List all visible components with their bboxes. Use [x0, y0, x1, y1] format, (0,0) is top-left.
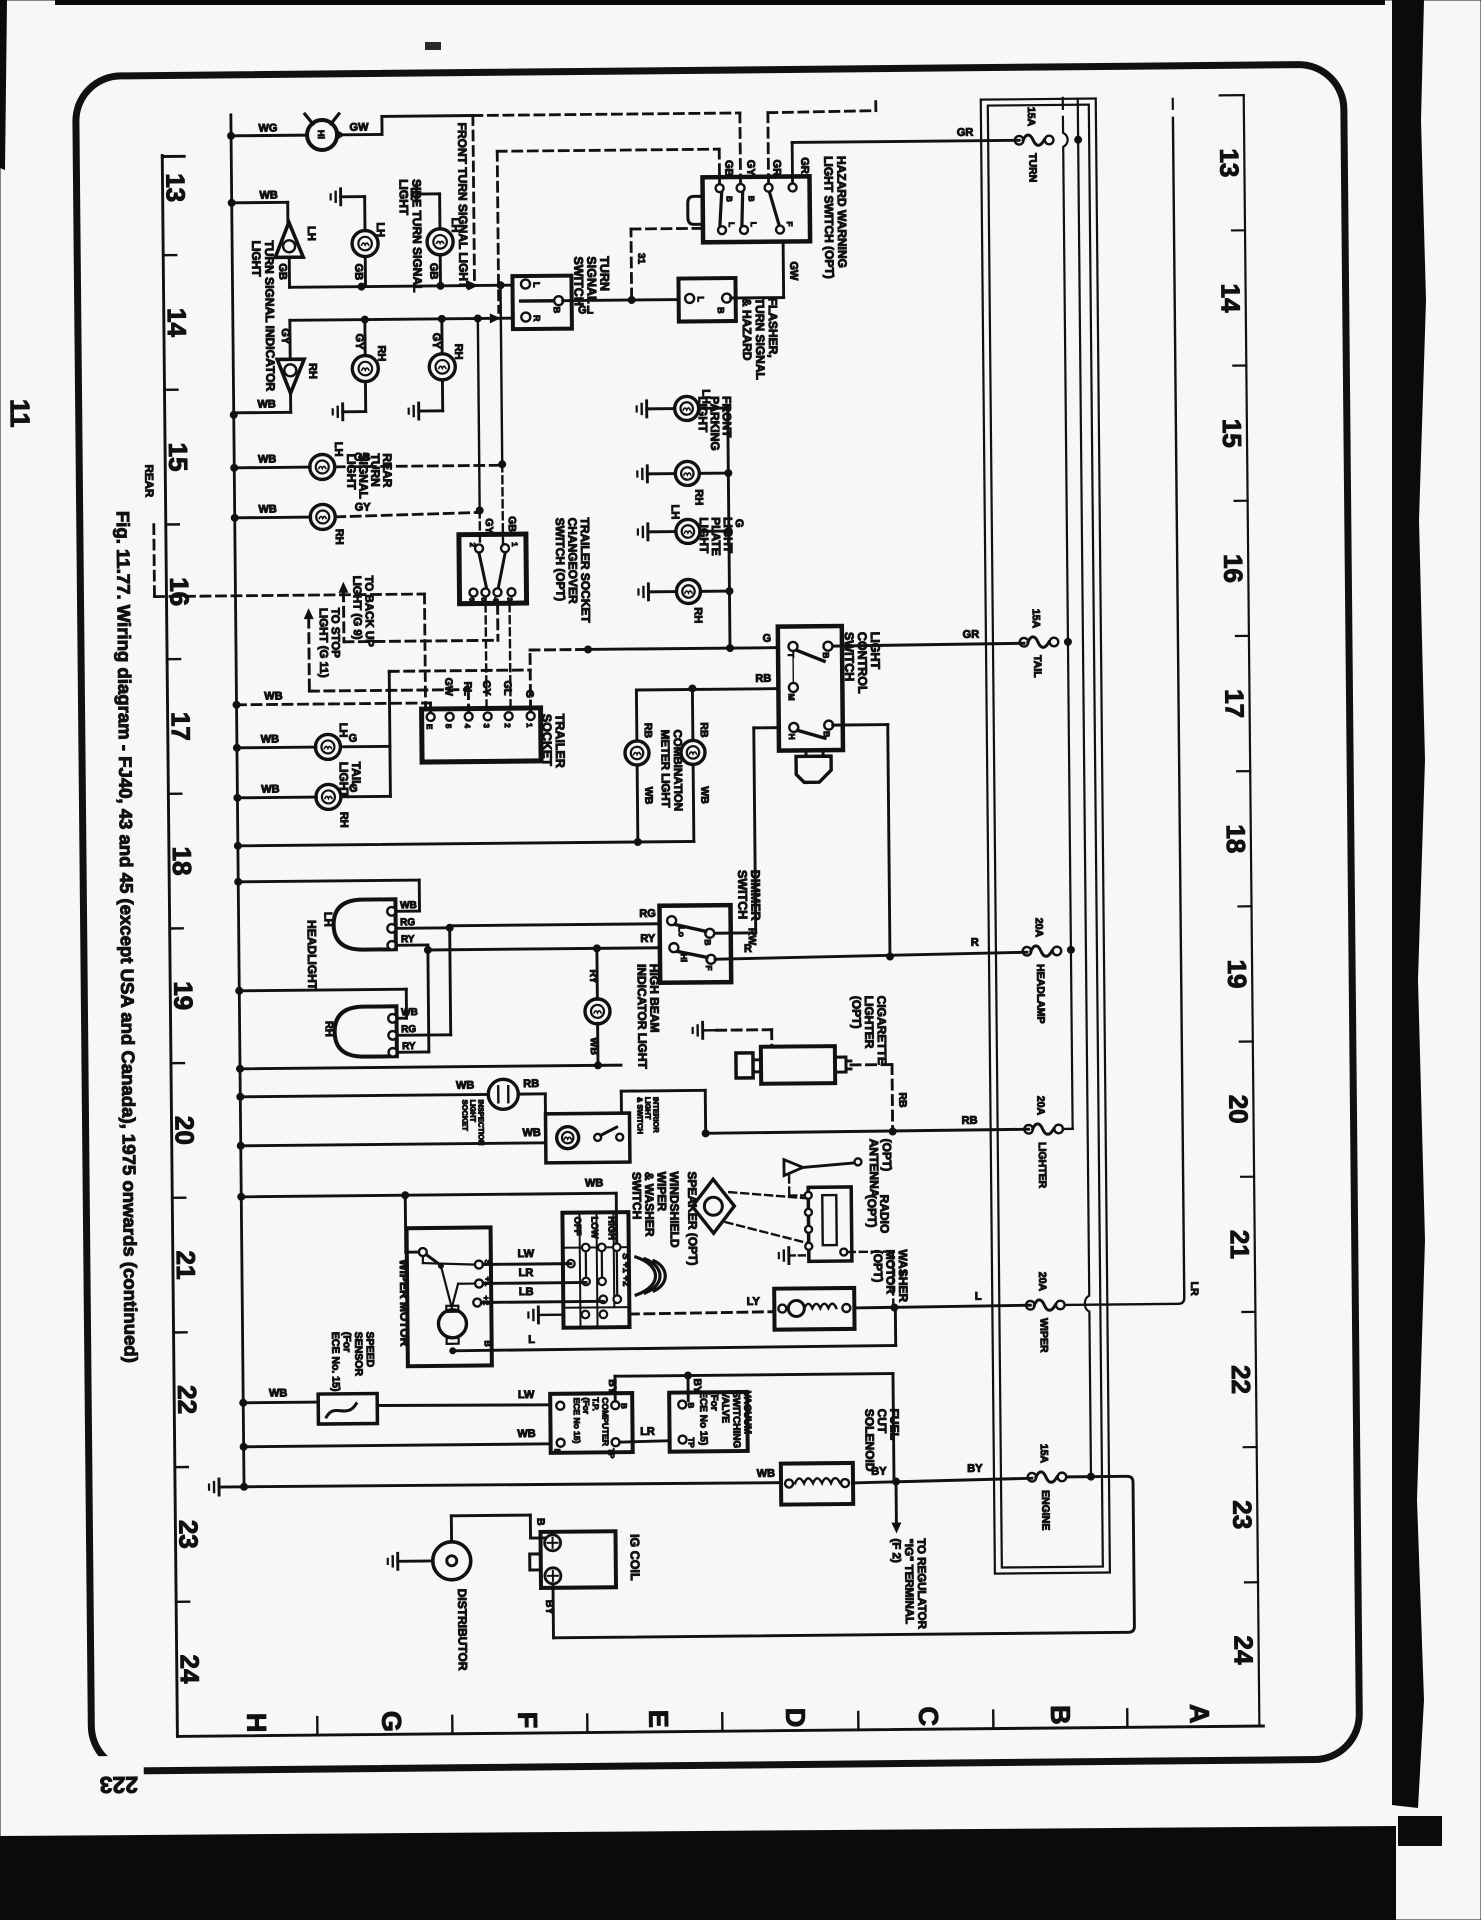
- dashed wires speaker to radio: [725, 1191, 808, 1244]
- label FLASHER TURN SIGNAL & HAZARD: [740, 298, 781, 380]
- svg-text:B: B: [534, 1518, 546, 1526]
- label HAZARD WARNING LIGHT SWITCH (OPT): [821, 156, 849, 279]
- svg-text:WB: WB: [585, 1177, 603, 1189]
- svg-text:24: 24: [175, 1654, 205, 1684]
- turn signal switch: [512, 276, 572, 330]
- svg-text:WIPER MOTOR: WIPER MOTOR: [397, 1259, 412, 1347]
- wire GR light control to TAIL fuse: [833, 628, 1024, 646]
- svg-text:GW: GW: [442, 678, 454, 696]
- wire WB high beam indicator: [240, 1065, 621, 1069]
- dashed wire hazard continuation stub: [768, 102, 877, 183]
- svg-text:GW: GW: [349, 122, 369, 134]
- combination meter light 2: [681, 722, 711, 841]
- label CIGARETTE LIGHTER (OPT): [849, 996, 889, 1066]
- svg-text:G: G: [376, 1711, 406, 1732]
- svg-text:WB: WB: [588, 1037, 600, 1055]
- rear turn signal light RH: [235, 502, 372, 546]
- wire LW speed sensor to computer: [377, 1389, 550, 1407]
- svg-text:WB: WB: [698, 786, 710, 804]
- svg-text:RG: RG: [400, 917, 415, 928]
- wire LR wiper: [483, 1266, 586, 1283]
- svg-text:G: G: [349, 733, 358, 745]
- wire RB interior light to LIGHTER fuse: [621, 1087, 1028, 1138]
- svg-text:20A: 20A: [1036, 1272, 1048, 1292]
- svg-text:B: B: [703, 939, 713, 945]
- svg-text:RH: RH: [333, 529, 345, 545]
- svg-text:WIPER: WIPER: [1037, 1318, 1049, 1353]
- svg-text:22: 22: [1226, 1365, 1256, 1394]
- headlight RH: [322, 1006, 418, 1057]
- wire WB main ground bus: [227, 115, 248, 1491]
- svg-text:RB: RB: [698, 722, 710, 738]
- svg-text:B: B: [686, 1402, 695, 1408]
- svg-text:TAIL: TAIL: [1031, 655, 1043, 678]
- dashed wire RB cigarette lighter: [851, 1064, 909, 1129]
- front turn signal light LH: [407, 186, 462, 287]
- side turn signal light RH: [332, 319, 388, 420]
- svg-text:WB: WB: [517, 1428, 535, 1440]
- svg-text:1: 1: [525, 723, 534, 728]
- svg-text:19: 19: [1222, 959, 1252, 988]
- svg-text:17: 17: [166, 712, 196, 741]
- svg-text:4: 4: [492, 597, 499, 601]
- svg-text:21: 21: [171, 1250, 201, 1279]
- svg-text:+1: +1: [483, 1276, 493, 1286]
- wire GB row (left turn): [289, 255, 512, 292]
- wiper motor: [407, 1227, 494, 1366]
- svg-text:B: B: [716, 307, 726, 314]
- fuse 15A TAIL: [1019, 609, 1058, 679]
- headlight LH: [321, 899, 417, 950]
- wire LW wiper: [483, 1248, 571, 1265]
- hazard terminal labels: [722, 157, 810, 176]
- svg-text:4: 4: [463, 724, 472, 729]
- svg-text:RY: RY: [640, 933, 656, 945]
- grid ruler bottom: [177, 1708, 1263, 1736]
- margin chapter number 11: [5, 399, 35, 428]
- svg-text:RB: RB: [896, 1092, 908, 1108]
- wire G parking lights to switch: [724, 408, 746, 648]
- svg-text:LH: LH: [374, 222, 386, 237]
- svg-text:RH: RH: [338, 812, 350, 828]
- grid ruler bottom letters H-A: [241, 1703, 1214, 1733]
- wire LR riser (wiper fuse to top): [1055, 99, 1201, 1305]
- dashed wire hazard top run 2: [497, 149, 721, 312]
- svg-text:16: 16: [164, 577, 194, 606]
- svg-text:Hi: Hi: [316, 130, 326, 139]
- bus line V2 (TURN/ENGINE feed): [1073, 99, 1091, 1474]
- wire B distributor to ig coil: [451, 1515, 546, 1542]
- svg-text:GY: GY: [353, 334, 365, 351]
- svg-text:14: 14: [1216, 283, 1246, 313]
- svg-text:22: 22: [172, 1385, 202, 1414]
- svg-text:R: R: [532, 315, 542, 322]
- svg-text:LW: LW: [518, 1248, 535, 1260]
- wire WB interior light: [241, 1127, 546, 1146]
- svg-text:B: B: [747, 196, 756, 202]
- wire LR computer TP to valve TP: [619, 1426, 669, 1442]
- wire BY engine fuse to ig coil: [552, 1476, 1134, 1638]
- svg-text:15A: 15A: [1025, 107, 1037, 127]
- windshield wiper and washer switch: [562, 1212, 631, 1328]
- fuse 20A LIGHTER: [1024, 1096, 1063, 1189]
- svg-text:RG: RG: [401, 1024, 416, 1035]
- wire RY headlights to dimmer: [396, 933, 661, 1053]
- wire WB headlight LH: [238, 880, 419, 913]
- svg-text:RH: RH: [692, 607, 704, 623]
- svg-text:WB: WB: [642, 787, 654, 805]
- computer (For ECE No.15): [550, 1393, 633, 1460]
- flasher turn signal and hazard: [678, 278, 735, 322]
- svg-text:WB: WB: [269, 1387, 287, 1399]
- svg-text:5: 5: [480, 597, 487, 601]
- svg-text:RG: RG: [639, 908, 656, 920]
- svg-text:GL: GL: [501, 681, 513, 696]
- svg-text:2: 2: [503, 723, 512, 728]
- trailer socket changeover switch (OPT): [459, 534, 527, 604]
- svg-text:GR: GR: [770, 160, 782, 177]
- svg-text:FRONT TURN SIGNAL LIGHT: FRONT TURN SIGNAL LIGHT: [455, 123, 471, 290]
- label IG COIL: [628, 1534, 642, 1581]
- svg-text:GL: GL: [578, 304, 594, 316]
- svg-text:WB: WB: [257, 398, 275, 410]
- svg-text:GY: GY: [279, 328, 291, 345]
- arrow TO STOP LIGHT: [304, 607, 469, 713]
- vacuum switching valve (For ECE No 15): [669, 1391, 753, 1452]
- wire GL to flasher: [563, 296, 679, 317]
- svg-text:18: 18: [1221, 824, 1251, 853]
- svg-text:F: F: [512, 1712, 542, 1729]
- junction dots at fuse outputs: [1059, 136, 1095, 1481]
- svg-text:BY: BY: [543, 1600, 555, 1615]
- svg-text:L: L: [528, 1334, 535, 1346]
- licence plate light RH: [638, 579, 729, 624]
- ground main: [209, 1479, 244, 1495]
- svg-text:L: L: [975, 1291, 982, 1303]
- svg-text:RH: RH: [452, 344, 464, 360]
- dashed wire LY washer: [629, 1296, 774, 1314]
- svg-text:R: R: [971, 937, 979, 949]
- svg-text:RY: RY: [402, 1041, 416, 1052]
- svg-text:HAZARD WARNINGLIGHT SWITCH (OP: HAZARD WARNINGLIGHT SWITCH (OPT): [821, 156, 849, 279]
- svg-text:WB: WB: [757, 1468, 775, 1480]
- svg-text:11: 11: [5, 399, 35, 428]
- grid ruler right numbers 13-24: [1214, 148, 1259, 1665]
- svg-text:SPEAKER (OPT): SPEAKER (OPT): [685, 1171, 700, 1265]
- wire G tail lights: [340, 670, 531, 797]
- svg-text:TURN: TURN: [1026, 153, 1038, 182]
- svg-text:GR: GR: [957, 127, 974, 139]
- svg-text:13: 13: [160, 173, 190, 202]
- label TRAILER SOCKET CHANGEOVER SWITCH (OPT): [553, 517, 593, 623]
- tail light LH: [237, 723, 358, 761]
- hazard warning light switch: [687, 176, 810, 242]
- label INSPECTION LIGHT SOCKET: [460, 1099, 485, 1145]
- ground radio: [779, 1247, 807, 1263]
- combination meter light 1: [625, 723, 655, 842]
- svg-text:GY: GY: [483, 518, 495, 533]
- svg-text:TP: TP: [607, 1448, 616, 1459]
- grid ruler left: [162, 155, 199, 1736]
- svg-text:RH: RH: [306, 363, 318, 379]
- svg-text:LB: LB: [519, 1286, 534, 1298]
- svg-text:D: D: [780, 1708, 810, 1728]
- label LICENCE PLATE LIGHT: [697, 517, 735, 556]
- front parking light RH: [637, 461, 728, 506]
- svg-text:B: B: [619, 1403, 628, 1409]
- svg-text:1: 1: [510, 542, 519, 547]
- svg-text:5: 5: [444, 724, 453, 729]
- label TAIL LIGHT: [337, 762, 364, 799]
- svg-text:GB: GB: [276, 263, 288, 280]
- wire WB ground row to solenoid: [244, 1468, 781, 1488]
- label HIGH BEAM INDICATOR LIGHT: [635, 964, 663, 1070]
- svg-text:LR: LR: [519, 1267, 534, 1279]
- svg-text:15: 15: [1217, 419, 1247, 448]
- label TURN SIGNAL SWITCH: [571, 256, 611, 306]
- dashed boundary REAR section: [142, 462, 425, 712]
- svg-text:WB: WB: [456, 1080, 474, 1092]
- svg-text:GY: GY: [480, 680, 492, 695]
- scanner mark top-left: [0, 0, 441, 170]
- svg-text:LR: LR: [640, 1426, 655, 1438]
- svg-text:T: T: [786, 652, 796, 658]
- side turn signal light LH: [331, 188, 387, 287]
- label WINDSHIELD WIPER & WASHER SWITCH: [630, 1172, 682, 1249]
- figure caption: [113, 511, 141, 1363]
- svg-text:H: H: [787, 733, 797, 739]
- fuel cut solenoid: [781, 1463, 853, 1505]
- page border frame: [75, 64, 1359, 1786]
- svg-text:HEADLIGHT: HEADLIGHT: [305, 920, 320, 991]
- svg-text:Hi: Hi: [679, 953, 689, 962]
- dashed wire L radio to washer motor: [848, 1251, 909, 1304]
- svg-text:L: L: [696, 296, 706, 302]
- wire BY computer to valve: [606, 1370, 894, 1483]
- svg-text:+2: +2: [481, 1295, 491, 1305]
- svg-text:WB: WB: [258, 503, 276, 515]
- wire WB meter lights to bus: [238, 837, 694, 849]
- dashed wires changeover to trailer socket: [486, 604, 511, 710]
- svg-text:G: G: [733, 519, 745, 528]
- tail light RH: [237, 783, 358, 829]
- wire GR hazard to TURN fuse: [792, 126, 1020, 182]
- label REAR TURN SIGNAL LIGHT: [344, 453, 394, 499]
- licence plate light LH: [638, 504, 729, 544]
- label FRONT TURN SIGNAL LIGHT: [455, 123, 471, 290]
- wire RB combination meter: [636, 688, 692, 741]
- dashed boundary front turn signal: [473, 116, 475, 281]
- svg-text:WB: WB: [522, 1127, 540, 1139]
- svg-text:RH: RH: [692, 489, 704, 505]
- svg-text:18: 18: [167, 846, 197, 875]
- fuse 20A HEADLAMP: [1022, 918, 1062, 1024]
- dashed wire GY rear: [336, 506, 484, 516]
- svg-text:WB: WB: [261, 783, 279, 795]
- svg-text:15A: 15A: [1030, 609, 1042, 629]
- label DISTRIBUTOR: [455, 1589, 470, 1671]
- svg-text:WB: WB: [264, 690, 282, 702]
- ground wiper switch: [528, 1307, 563, 1323]
- svg-text:20A: 20A: [1034, 1096, 1046, 1116]
- svg-text:15: 15: [163, 442, 193, 471]
- svg-text:RH: RH: [323, 1021, 335, 1037]
- wire GW horn to hazard: [344, 116, 473, 135]
- arrow TO BACK UP LIGHT: [338, 574, 498, 647]
- wire R light control to dimmer junction: [833, 725, 890, 958]
- wire WB wiper motor feed: [405, 1195, 419, 1252]
- fusebox bus bars (double-line loop): [981, 99, 1110, 1574]
- label FRONT PARKING LIGHT: [696, 396, 735, 451]
- svg-text:F: F: [785, 221, 794, 226]
- svg-text:GB: GB: [352, 264, 364, 281]
- washer motor (OPT): [774, 1288, 854, 1330]
- svg-text:WG: WG: [258, 122, 277, 134]
- ig coil: [529, 1531, 616, 1588]
- svg-text:TP: TP: [687, 1437, 696, 1448]
- svg-text:IG COIL: IG COIL: [628, 1534, 642, 1581]
- svg-text:BY: BY: [606, 1379, 618, 1394]
- fuse 15A TURN: [1015, 107, 1054, 183]
- svg-text:A: A: [1184, 1704, 1214, 1724]
- wire GB to changeover switch: [496, 281, 518, 543]
- svg-text:GB: GB: [427, 263, 439, 280]
- page number 223: [100, 1772, 139, 1798]
- label WASHER MOTOR (OPT): [871, 1249, 911, 1302]
- svg-text:HIGH: HIGH: [605, 1216, 616, 1240]
- svg-text:LH: LH: [669, 505, 681, 520]
- svg-text:15A: 15A: [1038, 1444, 1050, 1464]
- svg-text:RB: RB: [962, 1115, 978, 1127]
- label TRAILER SOCKET: [540, 714, 568, 768]
- svg-text:LY: LY: [747, 1296, 761, 1308]
- svg-text:H: H: [241, 1713, 271, 1733]
- dimmer switch: [659, 905, 731, 983]
- turn signal indicator light LH: [275, 222, 318, 280]
- scanner line top edge: [55, 0, 1385, 5]
- label HEADLIGHT: [305, 920, 320, 991]
- wire LB wiper: [481, 1285, 603, 1302]
- label DIMMER SWITCH: [735, 870, 762, 921]
- svg-text:DIMMERSWITCH: DIMMERSWITCH: [735, 870, 762, 921]
- wire L wiper motor: [452, 1308, 895, 1351]
- svg-text:OFF: OFF: [571, 1217, 582, 1236]
- svg-text:L: L: [749, 222, 758, 227]
- svg-text:R: R: [744, 943, 752, 955]
- svg-text:20: 20: [1223, 1095, 1253, 1124]
- svg-text:B: B: [822, 731, 832, 737]
- svg-text:LOW: LOW: [588, 1216, 599, 1238]
- distributor: [388, 1542, 471, 1581]
- svg-text:6: 6: [468, 598, 475, 602]
- label LIGHT CONTROL SWITCH: [842, 632, 883, 695]
- svg-text:E: E: [553, 1449, 562, 1455]
- wire L washer motor to WIPER fuse: [854, 1290, 1030, 1312]
- ground cigarette lighter: [693, 1022, 772, 1048]
- rear turn signal light LH: [234, 442, 371, 481]
- svg-text:23: 23: [1227, 1500, 1257, 1529]
- svg-text:WB: WB: [400, 900, 417, 911]
- antenna (OPT): [784, 1158, 862, 1195]
- dashed wire G trailer to light control: [530, 649, 587, 710]
- svg-text:GW: GW: [787, 261, 799, 281]
- fuse 15A ENGINE: [1027, 1444, 1066, 1531]
- svg-text:GB: GB: [722, 160, 734, 177]
- svg-text:TRAILERSOCKET: TRAILERSOCKET: [540, 714, 568, 768]
- svg-text:RY: RY: [401, 934, 415, 945]
- label INTERIOR LIGHT & SWITCH: [635, 1097, 660, 1134]
- label TURN SIGNAL INDICATOR LIGHT: [249, 240, 277, 391]
- trailer socket: [422, 708, 542, 762]
- svg-text:DISTRIBUTOR: DISTRIBUTOR: [455, 1589, 470, 1671]
- horn Hi: [305, 114, 345, 150]
- svg-text:ENGINE: ENGINE: [1039, 1490, 1051, 1530]
- wire GY to changeover switch: [478, 318, 495, 543]
- inspection light socket: [240, 1078, 545, 1117]
- svg-text:WB: WB: [258, 453, 276, 465]
- svg-text:L: L: [531, 282, 541, 288]
- svg-text:LH: LH: [332, 442, 344, 457]
- wiper switch coil: [636, 1257, 666, 1295]
- grid ruler left numbers 13-24: [160, 173, 205, 1684]
- svg-text:BY: BY: [871, 1466, 887, 1478]
- bus line V1 (TAIL/HEADLAMP feed): [1055, 98, 1077, 1129]
- label COMBINATION METER LIGHT: [658, 730, 683, 812]
- svg-text:C: C: [913, 1706, 943, 1726]
- svg-text:B: B: [1045, 1705, 1075, 1725]
- speaker (OPT): [685, 1171, 735, 1265]
- wire BY ig coil: [543, 1584, 556, 1638]
- front turn signal light RH: [408, 319, 465, 420]
- svg-text:WB: WB: [259, 189, 277, 201]
- svg-text:S +1 +2: S +1 +2: [620, 1253, 631, 1286]
- svg-text:RB: RB: [755, 673, 771, 685]
- svg-text:M: M: [786, 693, 796, 700]
- dashed wire GB rear: [335, 460, 506, 470]
- label FUEL CUT SOLENOID: [862, 1408, 902, 1471]
- svg-text:HEADLAMP: HEADLAMP: [1034, 964, 1047, 1024]
- wire WB wiper switch: [241, 1177, 617, 1247]
- dashed wire WB to trailer socket: [236, 689, 430, 713]
- interior light and switch: [545, 1113, 629, 1163]
- svg-text:3: 3: [506, 597, 513, 601]
- grid ruler right: [1220, 95, 1260, 1724]
- svg-text:B: B: [552, 307, 562, 314]
- front parking light LH: [637, 389, 728, 421]
- light control switch: [778, 626, 843, 751]
- wire RW light control to dimmer: [712, 728, 781, 946]
- svg-text:GY: GY: [430, 333, 442, 350]
- svg-text:LR: LR: [1188, 1282, 1200, 1297]
- svg-text:G: G: [763, 633, 772, 645]
- scanner black band bottom edge: [0, 1826, 1396, 1920]
- label ANTENNA (OPT): [867, 1139, 895, 1198]
- svg-text:3: 3: [482, 723, 491, 728]
- svg-text:24: 24: [1229, 1635, 1259, 1665]
- svg-text:TO BACK UPLIGHT (G 9): TO BACK UPLIGHT (G 9): [350, 575, 375, 647]
- svg-text:13: 13: [1214, 148, 1244, 177]
- speed sensor (For ECE No. 15): [318, 1332, 378, 1425]
- svg-text:16: 16: [1218, 554, 1248, 583]
- svg-text:GR: GR: [798, 157, 810, 174]
- wire GY row (right turn): [279, 313, 513, 359]
- svg-text:REAR: REAR: [142, 465, 154, 498]
- svg-text:COMBINATIONMETER LIGHT: COMBINATIONMETER LIGHT: [658, 730, 683, 812]
- svg-text:B: B: [483, 1340, 493, 1346]
- svg-text:L: L: [727, 222, 736, 227]
- svg-text:GB: GB: [506, 516, 518, 532]
- svg-text:20: 20: [169, 1116, 199, 1145]
